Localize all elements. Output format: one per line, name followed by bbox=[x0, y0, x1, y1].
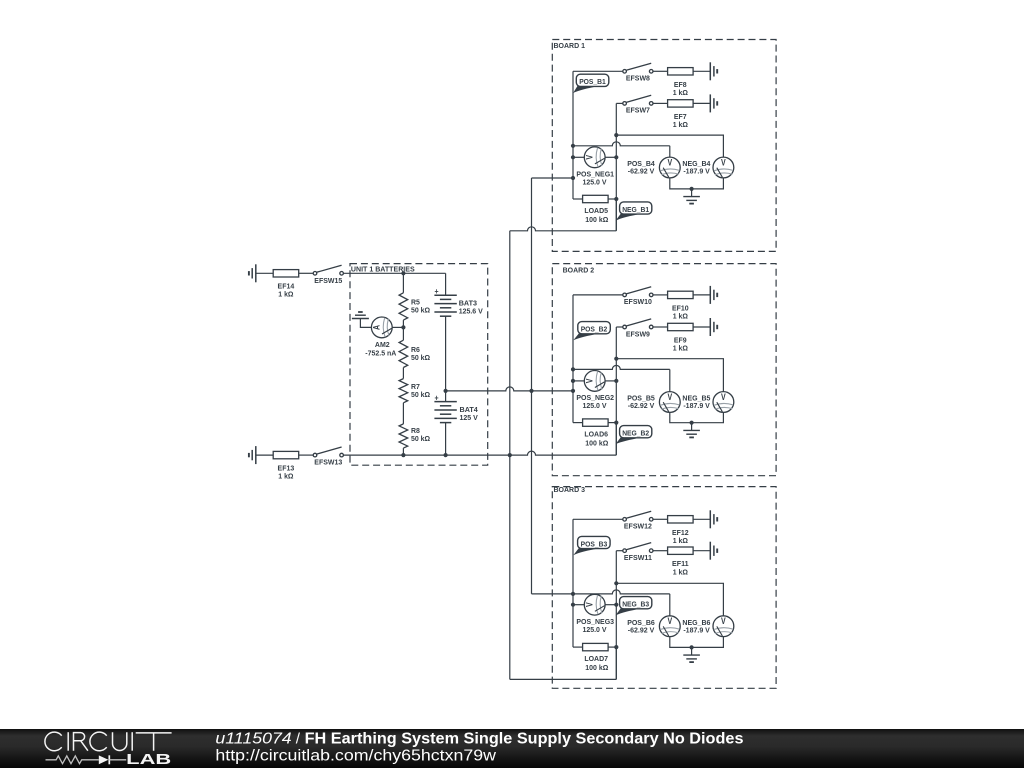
voltmeter NEG_B6 bbox=[682, 616, 733, 637]
resistor EF12 bbox=[668, 516, 694, 545]
wire bus2 to board3 entry / POS_B6 branch bbox=[532, 590, 670, 616]
switch EFSW15 bbox=[313, 265, 343, 285]
switch EFSW13 bbox=[313, 447, 343, 467]
wire POS_NEG2 right lead bbox=[605, 379, 618, 383]
wire EF13 ground lead bbox=[256, 454, 273, 456]
svg-text:-187.9 V: -187.9 V bbox=[683, 167, 710, 176]
svg-text:V: V bbox=[721, 616, 726, 626]
ammeter AM2 bbox=[365, 317, 397, 357]
wire POS_B5 to earth bbox=[670, 412, 692, 422]
resistor R7 bbox=[399, 379, 430, 424]
wire board1 POS top to EFSW8 bbox=[573, 70, 623, 72]
node flag NEG_B3 bbox=[616, 597, 652, 616]
ground EF7 bbox=[710, 94, 717, 112]
svg-text:100 kΩ: 100 kΩ bbox=[585, 215, 608, 224]
wire EFSW11 to EF11 bbox=[653, 550, 668, 552]
wire EF8 to ground bbox=[693, 70, 710, 72]
wire board3 POS vertical bbox=[572, 519, 574, 647]
ground EF12 bbox=[710, 510, 717, 528]
svg-text:V: V bbox=[667, 157, 672, 167]
svg-text:POS_B2: POS_B2 bbox=[581, 325, 608, 334]
wire EFSW10 to EF10 bbox=[653, 294, 668, 296]
svg-text:+: + bbox=[435, 392, 439, 402]
svg-text:EFSW13: EFSW13 bbox=[314, 458, 342, 467]
wire POS_B4 to earth bbox=[670, 178, 692, 189]
voltmeter POS_NEG3 bbox=[576, 594, 614, 634]
ground board1 earth bbox=[683, 189, 700, 204]
wire POS_NEG3 left lead bbox=[571, 603, 584, 607]
svg-text:LOAD5: LOAD5 bbox=[584, 206, 608, 215]
node bottom rail / bus1 junction bbox=[508, 453, 512, 457]
wire POS_NEG1 left lead bbox=[571, 155, 584, 159]
switch EFSW12 bbox=[623, 511, 653, 530]
switch EFSW10 bbox=[623, 287, 653, 306]
wire EF14 to EFSW15 bbox=[299, 272, 314, 274]
battery BAT3 bbox=[434, 286, 483, 316]
wire EF14 ground lead bbox=[256, 272, 273, 274]
wire board2 NEG top to EFSW9 bbox=[616, 326, 622, 328]
wire EF10 to ground bbox=[693, 294, 710, 296]
wire top rail EFSW15 to BAT3 bbox=[343, 273, 445, 295]
wire board3 bottom to bus1 bbox=[510, 647, 617, 679]
svg-text:1 kΩ: 1 kΩ bbox=[673, 88, 688, 97]
svg-text:125.0 V: 125.0 V bbox=[582, 401, 607, 410]
wire board3 NEG top to EFSW11 bbox=[616, 550, 622, 552]
footer title text bbox=[215, 730, 743, 764]
wire bus1 vertical (NEG) bbox=[509, 231, 511, 680]
svg-text:125.0 V: 125.0 V bbox=[582, 178, 607, 187]
resistor LOAD6 bbox=[573, 419, 618, 448]
svg-text:EFSW15: EFSW15 bbox=[314, 276, 343, 285]
svg-text:BOARD 2: BOARD 2 bbox=[563, 265, 595, 274]
svg-text:1 kΩ: 1 kΩ bbox=[673, 567, 688, 576]
voltmeter POS_B5 bbox=[627, 392, 680, 413]
svg-text:POS_B3: POS_B3 bbox=[581, 539, 608, 548]
svg-text:-62.92 V: -62.92 V bbox=[628, 625, 655, 634]
svg-text:FH Earthing System Single Supp: FH Earthing System Single Supply Seconda… bbox=[305, 730, 744, 747]
BOARD 2 enclosure bbox=[552, 264, 776, 476]
ground EF13 chassis bbox=[249, 446, 256, 464]
wire board1 POS branch to POS_B4 bbox=[571, 142, 670, 157]
resistor R8 bbox=[399, 424, 430, 455]
battery BAT4 bbox=[434, 391, 478, 423]
ground EF11 bbox=[710, 542, 717, 560]
wire board1 NEG branch to NEG_B4 bbox=[614, 133, 723, 157]
logo CIRCUIT LAB bbox=[45, 732, 172, 768]
wire board2 POS top to EFSW10 bbox=[573, 294, 623, 296]
wire NEG_B4 to earth bbox=[692, 178, 724, 189]
svg-text:u1115074: u1115074 bbox=[215, 730, 292, 747]
node POS net board2 entry bbox=[571, 389, 575, 393]
resistor R5 bbox=[399, 273, 430, 327]
svg-text:EFSW12: EFSW12 bbox=[624, 522, 652, 531]
svg-text:LOAD6: LOAD6 bbox=[584, 430, 608, 439]
wire POS net battery mid to board2 bbox=[446, 387, 573, 391]
ground AM2 reference (inverted earth) bbox=[352, 312, 369, 319]
wire EF7 to ground bbox=[693, 102, 710, 104]
svg-text:V: V bbox=[721, 392, 726, 402]
svg-text:NEG_B1: NEG_B1 bbox=[622, 205, 650, 214]
wire board1 bottom to bus1 bbox=[510, 199, 617, 231]
svg-text:NEG_B2: NEG_B2 bbox=[622, 429, 649, 438]
switch EFSW9 bbox=[623, 319, 653, 338]
wire POS_NEG2 left lead bbox=[571, 379, 584, 383]
node mid battery junction bbox=[444, 389, 448, 393]
svg-text:V: V bbox=[585, 155, 595, 160]
resistor EF7 bbox=[668, 100, 694, 129]
wire board2 POS vertical bbox=[572, 295, 574, 423]
UNIT 1 BATTERIES enclosure bbox=[350, 264, 488, 466]
svg-text:V: V bbox=[585, 602, 595, 607]
svg-text:V: V bbox=[667, 616, 672, 626]
svg-text:+: + bbox=[435, 286, 439, 296]
ground EF8 bbox=[710, 62, 717, 80]
resistor EF14 bbox=[273, 270, 299, 299]
svg-text:50 kΩ: 50 kΩ bbox=[411, 390, 430, 399]
svg-text:BOARD 1: BOARD 1 bbox=[554, 41, 586, 50]
node R8 bottom junction bbox=[401, 453, 405, 457]
svg-text:LOAD7: LOAD7 bbox=[584, 654, 608, 663]
svg-text:/: / bbox=[296, 730, 301, 747]
svg-text:LAB: LAB bbox=[126, 752, 172, 768]
svg-text:100 kΩ: 100 kΩ bbox=[585, 438, 608, 447]
svg-text:-187.9 V: -187.9 V bbox=[683, 401, 710, 410]
wire board3 POS top to EFSW12 bbox=[573, 518, 623, 520]
svg-text:100 kΩ: 100 kΩ bbox=[585, 663, 608, 672]
svg-text:1 kΩ: 1 kΩ bbox=[278, 290, 293, 299]
svg-text:POS_B1: POS_B1 bbox=[579, 77, 606, 86]
svg-text:50 kΩ: 50 kΩ bbox=[411, 434, 430, 443]
voltmeter POS_B6 bbox=[627, 616, 680, 637]
svg-text:http://circuitlab.com/chy65hct: http://circuitlab.com/chy65hctxn79w bbox=[215, 747, 496, 764]
node junction R5 top bbox=[401, 271, 405, 275]
ground board3 earth bbox=[683, 647, 700, 662]
wire BAT3 to mid junction bbox=[445, 316, 447, 391]
voltmeter NEG_B5 bbox=[682, 392, 733, 413]
wire bottom rail bbox=[343, 451, 616, 455]
svg-text:EFSW9: EFSW9 bbox=[626, 329, 650, 338]
wire bus2 to board1 POS entry bbox=[532, 176, 576, 180]
wire board2 NEG branch to NEG_B5 bbox=[614, 357, 723, 392]
wire EF12 to ground bbox=[693, 518, 710, 520]
wire board3 NEG branch to NEG_B6 bbox=[614, 581, 723, 616]
wire AM2 ground lead bbox=[360, 319, 371, 328]
wire board1 NEG vertical bbox=[615, 103, 617, 230]
resistor EF11 bbox=[668, 547, 694, 576]
svg-text:V: V bbox=[721, 157, 726, 167]
resistor EF10 bbox=[668, 291, 694, 320]
wire EFSW9 to EF9 bbox=[653, 326, 668, 328]
svg-text:EFSW7: EFSW7 bbox=[626, 106, 650, 115]
wire board3 NEG vertical bbox=[615, 551, 617, 680]
wire AM2 to resistor chain bbox=[392, 326, 403, 328]
voltmeter POS_NEG2 bbox=[576, 371, 614, 411]
ground EF10 bbox=[710, 286, 717, 304]
wire board1 NEG top to EFSW7 bbox=[616, 102, 622, 104]
svg-text:1 kΩ: 1 kΩ bbox=[673, 120, 688, 129]
wire EFSW12 to EF12 bbox=[653, 518, 668, 520]
svg-text:-62.92 V: -62.92 V bbox=[628, 167, 655, 176]
wire board2 NEG vertical bbox=[615, 327, 617, 455]
svg-text:1 kΩ: 1 kΩ bbox=[278, 471, 293, 480]
svg-text:NEG_B3: NEG_B3 bbox=[622, 600, 649, 609]
node flag POS_B3 bbox=[573, 536, 610, 555]
wire EF9 to ground bbox=[693, 326, 710, 328]
resistor EF8 bbox=[668, 68, 694, 97]
node BAT4 bottom junction bbox=[444, 453, 448, 457]
svg-text:V: V bbox=[585, 378, 595, 383]
node flag NEG_B1 bbox=[616, 202, 652, 221]
svg-text:1 kΩ: 1 kΩ bbox=[673, 312, 688, 321]
svg-text:A: A bbox=[372, 324, 382, 330]
wire board1 POS vertical bbox=[572, 71, 574, 199]
svg-text:125.6 V: 125.6 V bbox=[459, 306, 484, 315]
svg-text:125.0 V: 125.0 V bbox=[582, 625, 607, 634]
resistor R6 bbox=[399, 327, 430, 378]
svg-text:-752.5 nA: -752.5 nA bbox=[365, 348, 397, 357]
node board2 earth junction bbox=[690, 421, 694, 425]
svg-text:UNIT 1 BATTERIES: UNIT 1 BATTERIES bbox=[351, 265, 415, 274]
node flag POS_B1 bbox=[573, 74, 609, 93]
wire EFSW7 to EF7 bbox=[653, 102, 668, 104]
node POS net / bus2 junction bbox=[529, 389, 533, 393]
BOARD 3 enclosure bbox=[552, 485, 776, 688]
ground board2 earth bbox=[683, 423, 700, 438]
svg-text:50 kΩ: 50 kΩ bbox=[411, 305, 430, 314]
node board1 earth junction bbox=[690, 187, 694, 191]
svg-text:1 kΩ: 1 kΩ bbox=[673, 536, 688, 545]
wire bus2 vertical (POS) bbox=[531, 178, 533, 594]
svg-text:EFSW8: EFSW8 bbox=[626, 74, 650, 83]
switch EFSW11 bbox=[623, 543, 653, 562]
switch EFSW8 bbox=[623, 63, 653, 82]
svg-text:BOARD 3: BOARD 3 bbox=[554, 485, 586, 494]
resistor LOAD5 bbox=[573, 195, 618, 224]
wire board2 POS branch to POS_B5 bbox=[571, 365, 670, 391]
svg-text:-187.9 V: -187.9 V bbox=[683, 625, 710, 634]
svg-text:-62.92 V: -62.92 V bbox=[628, 401, 655, 410]
wire NEG_B6 to earth bbox=[692, 637, 724, 648]
wire POS_NEG1 right lead bbox=[605, 155, 618, 159]
voltmeter POS_B4 bbox=[627, 157, 680, 178]
wire board2 bottom corner bbox=[615, 423, 617, 456]
svg-text:EFSW11: EFSW11 bbox=[624, 553, 653, 562]
wire POS_NEG3 right lead bbox=[605, 603, 618, 607]
wire BAT4 to bottom rail bbox=[445, 423, 447, 456]
wire POS_B6 to earth bbox=[670, 637, 692, 648]
svg-text:125 V: 125 V bbox=[460, 413, 479, 422]
wire EF11 to ground bbox=[693, 550, 710, 552]
wire NEG_B5 to earth bbox=[692, 412, 724, 422]
ground EF14 chassis bbox=[249, 264, 256, 282]
resistor EF9 bbox=[668, 323, 694, 352]
switch EFSW7 bbox=[623, 95, 653, 114]
node flag NEG_B2 bbox=[616, 426, 652, 445]
resistor LOAD7 bbox=[573, 643, 618, 672]
node flag POS_B2 bbox=[573, 322, 610, 341]
svg-text:1 kΩ: 1 kΩ bbox=[673, 344, 688, 353]
svg-text:EFSW10: EFSW10 bbox=[624, 297, 652, 306]
wire EF13 to EFSW13 bbox=[299, 454, 314, 456]
ground EF9 bbox=[710, 318, 717, 336]
wire EFSW8 to EF8 bbox=[653, 70, 668, 72]
voltmeter POS_NEG1 bbox=[576, 147, 614, 187]
svg-text:50 kΩ: 50 kΩ bbox=[411, 353, 430, 362]
voltmeter NEG_B4 bbox=[682, 157, 733, 178]
BOARD 1 enclosure bbox=[552, 40, 776, 252]
svg-text:V: V bbox=[667, 392, 672, 402]
node board3 earth junction bbox=[690, 645, 694, 649]
node junction AM2/R5/R6 bbox=[401, 325, 405, 329]
resistor EF13 bbox=[273, 451, 299, 480]
